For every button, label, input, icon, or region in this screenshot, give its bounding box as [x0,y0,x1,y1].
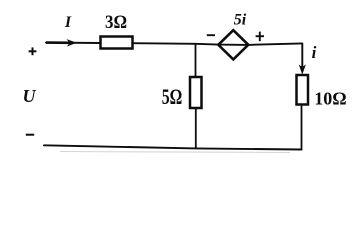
wire: middle vertical branch down to 5&#937; resistor [195,44,197,78]
label 5i [234,12,247,29]
svg-text:i: i [312,43,317,62]
svg-text:I: I [64,14,72,31]
current arrow I on top-left wire [46,39,77,46]
wire: middle vertical branch from 5&#937; resistor to bottom wire [195,108,197,149]
label I [64,14,72,31]
svg-text:5Ω: 5Ω [162,84,183,109]
dependent source 5i (diamond) [218,30,248,59]
resistor 3&#937; (horizontal box) [101,37,133,49]
svg-text:3Ω: 3Ω [105,12,127,33]
polarity - (left of dependent source) [207,34,215,36]
wire: bottom horizontal return run [44,145,302,152]
svg-text:5i: 5i [234,12,247,29]
svg-text:U: U [23,86,37,106]
wire: right vertical branch from 10&#937; resistor to bottom wire [301,105,303,150]
label U (port voltage) [23,86,37,106]
label 10&#937; [314,89,346,109]
terminal - (lower left, port polarity) [26,134,34,136]
wire: top horizontal run from + terminal to right corner [46,43,302,45]
resistor 5&#937; (vertical box) [190,77,202,108]
terminal + (upper left, port polarity) [29,47,37,55]
svg-text:10Ω: 10Ω [314,89,346,109]
label i [312,43,317,62]
polarity + (right of dependent source) [256,32,264,42]
resistor 10&#937; (vertical box) [297,75,309,105]
label 3&#937; [105,12,127,33]
wire: right vertical branch from top corner with current arrow i [299,43,306,74]
label 5&#937; [162,84,183,109]
